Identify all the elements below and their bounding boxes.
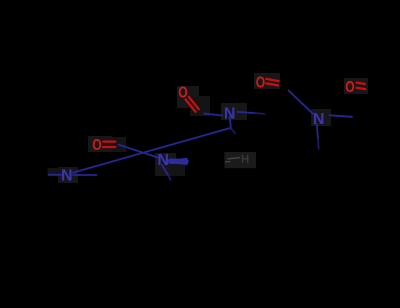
svg-text:N: N [224,105,236,122]
svg-text:N: N [313,111,325,128]
svg-text:N: N [157,152,169,169]
svg-text:O: O [178,84,187,101]
svg-text:O: O [92,137,101,154]
svg-text:O: O [345,79,354,96]
svg-text:N: N [61,167,73,184]
svg-text:O: O [256,75,265,92]
